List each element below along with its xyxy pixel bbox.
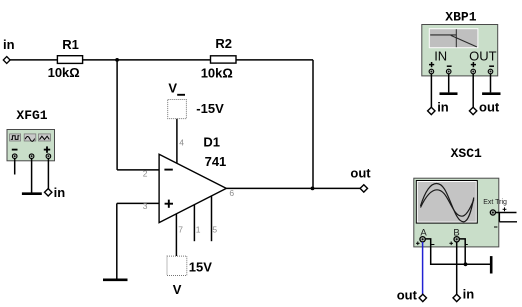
svg-text:-15V: -15V <box>196 101 224 116</box>
svg-text:10kΩ: 10kΩ <box>48 65 80 80</box>
svg-text:in: in <box>54 185 66 200</box>
svg-text:1: 1 <box>196 224 201 234</box>
svg-text:IN: IN <box>434 49 447 64</box>
svg-text:XBP1: XBP1 <box>445 9 476 24</box>
svg-text:7: 7 <box>178 224 183 234</box>
svg-text:V: V <box>168 81 177 96</box>
svg-text:D1: D1 <box>203 135 220 150</box>
svg-text:OUT: OUT <box>469 49 497 64</box>
svg-text:out: out <box>479 99 500 114</box>
svg-text:3: 3 <box>143 201 148 211</box>
svg-text:in: in <box>437 99 449 114</box>
svg-text:2: 2 <box>143 169 148 179</box>
svg-text:5: 5 <box>212 224 217 234</box>
svg-text:R1: R1 <box>62 37 79 52</box>
svg-text:out: out <box>397 288 418 303</box>
svg-text:741: 741 <box>205 154 227 169</box>
svg-text:V: V <box>173 282 182 297</box>
svg-text:in: in <box>463 287 475 302</box>
svg-text:in: in <box>3 37 15 52</box>
svg-text:out: out <box>350 165 371 180</box>
svg-text:10kΩ: 10kΩ <box>201 65 233 80</box>
svg-text:6: 6 <box>229 188 234 198</box>
svg-text:XSC1: XSC1 <box>451 146 482 161</box>
svg-text:R2: R2 <box>215 36 232 51</box>
svg-text:XFG1: XFG1 <box>16 108 47 123</box>
svg-text:Ext Trig: Ext Trig <box>483 199 507 206</box>
svg-text:15V: 15V <box>189 259 212 274</box>
svg-text:4: 4 <box>179 138 184 148</box>
